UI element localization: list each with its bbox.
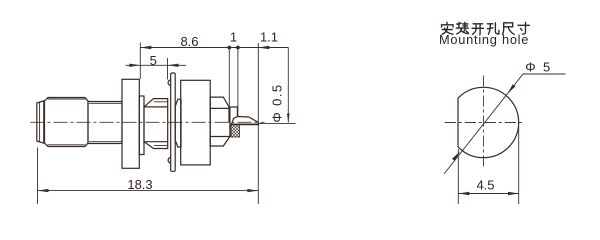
svg-text:1.1: 1.1 (260, 30, 278, 45)
svg-text:18.3: 18.3 (127, 177, 152, 192)
svg-text:Φ 0.5: Φ 0.5 (270, 84, 285, 123)
svg-text:Mounting hole: Mounting hole (439, 32, 529, 47)
svg-text:8.6: 8.6 (180, 34, 198, 49)
svg-text:4.5: 4.5 (476, 178, 494, 193)
svg-text:5: 5 (543, 60, 550, 75)
svg-text:5: 5 (150, 53, 157, 68)
svg-text:Φ: Φ (525, 60, 535, 75)
svg-text:1: 1 (230, 30, 237, 45)
